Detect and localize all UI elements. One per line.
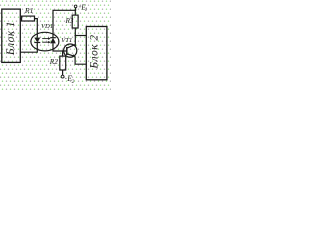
node: base junction [62,50,64,52]
terminal -E2 [61,75,64,78]
block 2 box [86,27,107,80]
svg-text:R3: R3 [65,17,74,25]
wire: collector node down to VT1 [74,36,76,47]
optocoupler VD1 [31,32,59,51]
wire: LED cathode to block1 [20,49,37,52]
photodiode inside VD1 [50,34,56,49]
svg-text:Блок 1: Блок 1 [5,21,17,56]
wire: rail to R3 [74,10,76,15]
svg-text:1: 1 [85,8,88,13]
light arrows [42,37,50,43]
block 1 box [2,9,21,62]
wire: photodiode to +E1 rail [53,10,75,34]
wire: base node to R2 [62,51,64,56]
svg-text:VT1: VT1 [61,37,72,44]
wire: R1 to LED anode [35,19,38,34]
LED inside VD1 [34,34,40,50]
wire: R3 to collector node [74,28,76,36]
resistor R2 [60,56,66,70]
transistor VT1 [64,44,77,57]
svg-text:R1: R1 [24,6,34,15]
svg-text:R2: R2 [49,57,59,66]
label +E1 [78,2,87,13]
resistor R1 [22,16,35,21]
svg-text:Блок 2: Блок 2 [89,34,101,69]
node: collector junction [74,35,76,37]
wire: R2 to -E2 terminal [62,70,64,75]
svg-text:VD1: VD1 [41,23,53,30]
resistor R3 [72,15,78,28]
wire: emitter to block2 [75,56,86,64]
wire: collector node to block2 [75,35,86,37]
svg-text:2: 2 [72,79,75,85]
terminal +E1 [74,5,77,10]
label -E2 [65,74,75,85]
junction at rail [75,10,77,12]
wire: block1 to R1 [20,18,21,20]
wire: photodiode to base [53,49,67,51]
